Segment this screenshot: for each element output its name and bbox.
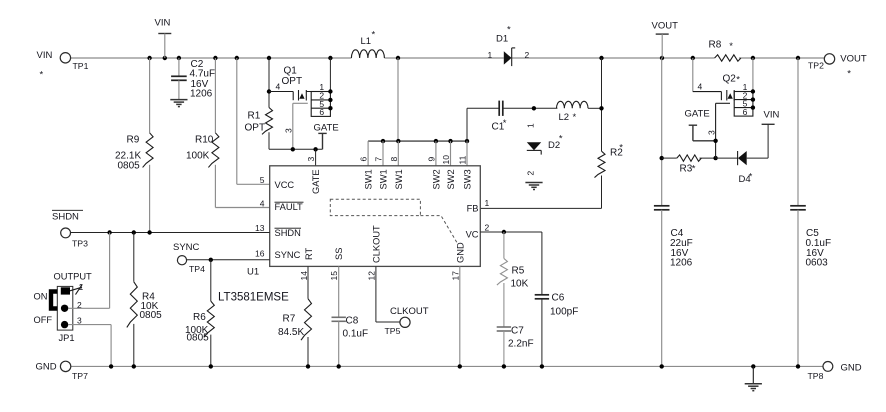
node GND junction earth <box>751 364 755 368</box>
svg-text:6: 6 <box>319 107 324 117</box>
svg-text:SW2: SW2 <box>446 169 456 189</box>
svg-text:R6: R6 <box>193 312 206 323</box>
capacitor C2 <box>171 58 215 100</box>
resistor R8 <box>709 40 741 62</box>
svg-text:5: 5 <box>260 175 265 185</box>
svg-text:Q2: Q2 <box>723 74 737 85</box>
svg-text:4: 4 <box>698 82 703 92</box>
wire GND rail <box>71 365 823 367</box>
svg-text:CLKOUT: CLKOUT <box>371 225 381 263</box>
svg-text:*: * <box>847 69 851 80</box>
resistor R4 <box>127 233 162 367</box>
node VC junction R5 <box>502 230 506 234</box>
node VIN junction C2 <box>177 56 181 60</box>
power flag VIN right <box>762 110 780 159</box>
svg-text:L1: L1 <box>361 36 372 47</box>
node GND junction C4 <box>660 364 664 368</box>
svg-text:*: * <box>619 143 623 154</box>
wire L2 to VOUT riser <box>588 107 602 109</box>
svg-text:13: 13 <box>255 223 265 233</box>
node SYNC junction R6 <box>209 258 213 262</box>
svg-text:TP7: TP7 <box>72 371 88 381</box>
jumper JP1 pin2 pad <box>61 305 68 312</box>
IC exposed pad dashed <box>330 199 420 215</box>
svg-text:FB: FB <box>467 204 479 214</box>
svg-text:FAULT: FAULT <box>275 202 304 212</box>
svg-text:OPT: OPT <box>282 76 303 87</box>
inductor L2 <box>557 101 589 123</box>
svg-text:SW3: SW3 <box>463 169 473 189</box>
svg-text:TP8: TP8 <box>808 371 824 381</box>
svg-text:0805: 0805 <box>187 333 210 344</box>
node VOUT junction C4/VOUT-flag <box>660 56 664 60</box>
node GND junction C6 <box>540 364 544 368</box>
flag GATE left <box>314 123 339 150</box>
node VOUT junction Q2 drain bus <box>751 56 755 60</box>
node Q2 bus pin2 <box>751 97 755 101</box>
node gate-drive source junction <box>291 147 295 151</box>
svg-text:SYNC: SYNC <box>275 250 301 260</box>
transistor Q2 gate wire pin4 <box>693 82 722 92</box>
svg-text:VCC: VCC <box>275 180 295 190</box>
svg-text:*: * <box>372 30 376 41</box>
svg-text:17: 17 <box>450 271 460 281</box>
wire Q2 drain bus <box>752 58 754 92</box>
node gate-drive GATE pin junction <box>313 147 317 151</box>
node SW bar pin7 <box>381 139 385 143</box>
svg-text:100pF: 100pF <box>550 307 578 318</box>
transistor Q1 gate wire pin4 <box>269 82 293 92</box>
svg-text:1: 1 <box>526 123 536 128</box>
jumper JP1 pin3 pad <box>61 321 68 328</box>
svg-text:10: 10 <box>441 155 451 165</box>
wire gate-drive <box>269 148 323 150</box>
wire CLKOUT pin12 <box>375 266 377 322</box>
svg-text:SW1: SW1 <box>394 169 404 189</box>
wire SW bus bar <box>368 140 467 142</box>
wire SW vertical <box>397 58 399 141</box>
node SHDN junction R9 <box>147 230 151 234</box>
svg-text:1: 1 <box>79 282 84 292</box>
svg-text:100K: 100K <box>186 151 210 162</box>
resistor R6 <box>185 260 214 367</box>
svg-text:3: 3 <box>306 157 316 162</box>
svg-text:R1: R1 <box>248 111 261 122</box>
svg-text:Q1: Q1 <box>284 66 298 77</box>
svg-text:10K: 10K <box>511 279 529 290</box>
svg-text:3: 3 <box>284 128 294 133</box>
svg-text:1206: 1206 <box>670 258 693 269</box>
wire Q2 gate branch <box>692 58 694 92</box>
svg-text:14: 14 <box>299 271 309 281</box>
node Q2 bus pin5 <box>751 105 755 109</box>
svg-text:R10: R10 <box>195 135 214 146</box>
node GND junction C8 <box>337 364 341 368</box>
test point TP1 VIN <box>60 53 88 71</box>
node Q2 bus pin1 <box>751 89 755 93</box>
svg-text:GND: GND <box>455 242 465 263</box>
test point TP2 VOUT <box>808 54 835 71</box>
svg-text:2: 2 <box>485 222 490 232</box>
node GND junction JP1 pin3 <box>109 364 113 368</box>
jumper JP1 ON shunt <box>51 292 58 309</box>
svg-text:SW2: SW2 <box>431 169 441 189</box>
wire VC net <box>480 231 542 233</box>
node L2/R2 junction <box>599 106 603 110</box>
svg-text:1: 1 <box>485 198 490 208</box>
resistor R5 <box>497 232 529 327</box>
node SHDN junction R4 <box>132 230 136 234</box>
svg-text:2: 2 <box>525 50 530 60</box>
svg-text:*: * <box>749 172 753 183</box>
resistor R3 <box>662 155 716 175</box>
wire pin11 drop <box>458 141 468 166</box>
wire VOUT riser <box>601 58 603 151</box>
svg-text:16: 16 <box>255 248 265 258</box>
svg-text:VIN: VIN <box>764 110 780 121</box>
svg-text:ON: ON <box>34 292 48 302</box>
svg-text:R7: R7 <box>283 314 296 325</box>
wire C1 riser from SW pin11 <box>466 108 468 141</box>
svg-text:U1: U1 <box>247 267 259 278</box>
resistor R9 <box>115 58 153 233</box>
svg-text:GND: GND <box>36 362 57 373</box>
svg-text:6: 6 <box>359 157 369 162</box>
svg-text:C7: C7 <box>511 326 524 337</box>
ground below D2 <box>525 182 542 184</box>
wire VCC feed <box>236 58 238 184</box>
resistor R1 <box>245 58 273 149</box>
test point TP7 <box>60 361 88 381</box>
svg-text:RT: RT <box>304 247 314 260</box>
node VIN junction VCC feed <box>235 56 239 60</box>
svg-text:SW1: SW1 <box>364 169 374 189</box>
wire Q1 source pin3 <box>284 103 308 149</box>
svg-text:11: 11 <box>458 155 468 164</box>
svg-text:C8: C8 <box>346 316 359 327</box>
power flag VIN <box>155 18 172 59</box>
capacitor C7 <box>497 326 534 367</box>
node VIN junction R9 <box>147 56 151 60</box>
svg-text:*: * <box>736 75 740 86</box>
svg-text:R5: R5 <box>512 266 525 277</box>
svg-text:84.5K: 84.5K <box>278 327 304 338</box>
wire SYNC net <box>187 259 270 261</box>
test point TP3 <box>61 228 88 249</box>
svg-text:1: 1 <box>488 50 493 60</box>
svg-text:L2: L2 <box>559 112 570 123</box>
wire FB net <box>480 207 601 209</box>
svg-text:OUTPUT: OUTPUT <box>54 272 93 282</box>
svg-text:LT3581EMSE: LT3581EMSE <box>218 292 289 304</box>
svg-text:0.1uF: 0.1uF <box>343 329 369 340</box>
svg-text:R9: R9 <box>127 135 140 146</box>
capacitor C4 <box>654 58 693 366</box>
test point TP4 <box>177 256 205 274</box>
svg-text:1206: 1206 <box>190 89 213 100</box>
wire JP1 pin3 to GND <box>68 316 111 367</box>
node GND junction pin17 <box>458 364 462 368</box>
wire VOUT segment from R8 to TP2 <box>739 57 824 59</box>
svg-text:7: 7 <box>374 157 384 162</box>
diode D2 <box>526 123 563 176</box>
resistor R10 <box>186 58 270 208</box>
capacitor C1 <box>492 101 507 133</box>
node SW bar pin8 <box>396 139 400 143</box>
svg-text:3: 3 <box>77 316 82 326</box>
node GND junction R4 <box>132 364 136 368</box>
svg-text:15: 15 <box>329 271 339 281</box>
svg-text:*: * <box>559 134 563 145</box>
svg-text:2: 2 <box>77 300 82 310</box>
svg-text:*: * <box>692 164 696 175</box>
capacitor C6 <box>535 232 579 366</box>
wire IC GATE pin3 <box>306 149 316 166</box>
wire pin9 drop <box>427 141 437 166</box>
svg-text:GATE: GATE <box>685 109 710 120</box>
svg-text:2: 2 <box>526 171 536 176</box>
svg-text:0805: 0805 <box>118 161 141 172</box>
node R1/Q1-gate junction <box>267 89 271 93</box>
wire pin8 drop <box>389 141 399 166</box>
svg-text:SYNC: SYNC <box>173 242 200 253</box>
wire JP1 pin2 to SHDN <box>68 233 109 311</box>
resistor R2 <box>595 143 624 209</box>
svg-text:4: 4 <box>276 82 281 92</box>
resistor R7 <box>278 266 312 366</box>
node Q1 bus pin5 <box>328 106 332 110</box>
svg-text:0603: 0603 <box>806 258 829 269</box>
test point TP5 <box>385 317 411 336</box>
svg-text:OFF: OFF <box>34 315 53 325</box>
node SHDN junction JP1 pin2 <box>107 230 111 234</box>
svg-text:OPT: OPT <box>245 123 266 134</box>
svg-text:SW1: SW1 <box>379 169 389 189</box>
svg-text:TP1: TP1 <box>73 61 89 71</box>
svg-text:0805: 0805 <box>140 310 163 321</box>
svg-text:TP2: TP2 <box>808 61 824 71</box>
node GND junction R6 <box>209 364 213 368</box>
svg-text:*: * <box>40 70 44 81</box>
node VIN junction R10 <box>213 56 217 60</box>
svg-text:GATE: GATE <box>314 123 339 134</box>
svg-text:TP5: TP5 <box>385 326 401 336</box>
wire pin7 drop <box>374 141 384 166</box>
transistor Q1 <box>282 66 331 117</box>
node SW junction to SW pins <box>396 56 400 60</box>
svg-text:TP4: TP4 <box>189 264 205 274</box>
wire C1 to L2 node <box>503 107 558 109</box>
svg-text:*: * <box>503 118 507 129</box>
wire pin6 drop <box>359 141 369 166</box>
capacitor C5 <box>790 58 831 366</box>
node GND junction R7 <box>306 364 310 368</box>
node Q1 bus pin2 <box>328 98 332 102</box>
wire SW segment from L1 to D1 anode <box>384 57 503 59</box>
svg-text:*: * <box>729 41 733 52</box>
svg-text:*: * <box>507 25 511 36</box>
node VOUT junction C5 <box>796 56 800 60</box>
diode D4 <box>716 151 769 185</box>
svg-text:4: 4 <box>260 198 265 208</box>
node VIN junction Q1 drain bus <box>328 56 332 60</box>
node SW bar pin9 <box>434 139 438 143</box>
svg-text:4.7uF: 4.7uF <box>190 69 216 80</box>
node R3 tap on C4 column <box>660 156 664 160</box>
node C1/D2/L2 junction <box>532 106 536 110</box>
node SW bar pin10 <box>448 139 452 143</box>
svg-text:*: * <box>573 112 577 123</box>
svg-text:SS: SS <box>334 248 344 260</box>
node VIN junction VIN-flag <box>163 56 167 60</box>
svg-text:GATE: GATE <box>311 169 321 194</box>
svg-text:VIN: VIN <box>155 18 171 29</box>
svg-text:9: 9 <box>427 157 437 162</box>
svg-text:GND: GND <box>841 363 862 374</box>
diode D1 <box>488 25 530 67</box>
power flag VOUT <box>652 21 679 59</box>
svg-text:3: 3 <box>706 130 716 135</box>
wire VOUT segment from D1 cathode to R8 <box>512 57 715 59</box>
jumper JP1 pin1 pad <box>61 287 70 294</box>
svg-text:R8: R8 <box>709 40 722 51</box>
svg-text:8: 8 <box>389 157 399 162</box>
label VOUT right <box>840 53 867 79</box>
wire SHDN net <box>71 232 270 234</box>
node VOUT junction Q2 gate branch <box>691 56 695 60</box>
svg-text:6: 6 <box>743 107 748 117</box>
wire pin10 drop <box>441 141 451 166</box>
node GND junction C5 <box>796 364 800 368</box>
svg-text:SHDN: SHDN <box>275 228 301 238</box>
node VIN junction R1/Q1 pin4 <box>267 56 271 60</box>
svg-text:TP3: TP3 <box>72 239 88 249</box>
ground symbol bottom <box>752 366 754 383</box>
node GATE flag junction <box>713 139 717 143</box>
flag GATE right <box>685 109 716 141</box>
wire Q2 source pin3 <box>706 103 730 158</box>
wire Q1 drain bus <box>329 58 331 92</box>
inductor L1 <box>351 30 384 59</box>
svg-text:SHDN: SHDN <box>52 212 79 223</box>
test point TP8 <box>808 362 833 382</box>
wire VIN rail from TP1 to L1 <box>71 57 352 59</box>
svg-text:JP1: JP1 <box>59 333 75 343</box>
svg-text:2.2nF: 2.2nF <box>508 339 534 350</box>
svg-text:12: 12 <box>366 271 376 281</box>
node VOUT junction L2/R2 <box>599 56 603 60</box>
svg-text:C6: C6 <box>552 293 565 304</box>
jumper JP1 pin1 lead <box>70 282 84 295</box>
node SW bar pin11 <box>465 139 469 143</box>
svg-text:VOUT: VOUT <box>652 21 679 32</box>
svg-text:VC: VC <box>466 230 479 240</box>
jumper JP1 body <box>54 272 93 343</box>
svg-text:VOUT: VOUT <box>840 53 867 64</box>
svg-text:VIN: VIN <box>37 50 53 61</box>
svg-text:CLKOUT: CLKOUT <box>390 306 429 317</box>
wire GND pin17 <box>459 266 461 366</box>
transistor Q2 <box>721 74 753 117</box>
node GND junction C7 <box>502 364 506 368</box>
node Q1 bus pin1 <box>328 89 332 93</box>
node R3/Q2-source/D4 junction <box>713 156 717 160</box>
ground below C2 <box>170 99 187 101</box>
op-amp U1 IC body <box>270 166 481 267</box>
label VIN left <box>37 50 53 81</box>
capacitor C8 <box>332 266 369 366</box>
